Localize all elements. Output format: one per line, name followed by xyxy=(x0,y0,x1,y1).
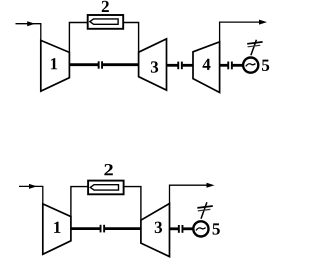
generator 5 circle (top diagram) xyxy=(243,58,258,73)
combustion chamber 2 inner flame tube (bottom diagram) xyxy=(90,185,118,190)
wire combustor to turbine (bottom diagram) xyxy=(124,187,141,221)
label 5 (top diagram) xyxy=(262,60,269,71)
coupling between 3 and 5 (bottom diagram) xyxy=(178,225,184,233)
turbine 3 (top diagram) xyxy=(139,39,167,90)
label 3 (bottom diagram) xyxy=(155,222,162,233)
compressor 1 (top diagram) xyxy=(41,40,70,91)
wire outlet arrow (top diagram) xyxy=(220,20,267,42)
label 2 (top diagram) xyxy=(102,1,109,12)
compressor 1 (bottom diagram) xyxy=(43,204,71,254)
coupling between 1 and 3 (top diagram) xyxy=(98,61,103,68)
generator 5 upper slash (bottom diagram) xyxy=(197,206,212,208)
turbine 3 (bottom diagram) xyxy=(141,204,170,257)
shaft turbine3-turbine4 (top diagram) xyxy=(167,64,194,67)
label 5 (bottom diagram) xyxy=(213,223,220,234)
shaft compressor-turbine (top diagram) xyxy=(69,63,138,66)
generator 5 upper slash (top diagram) xyxy=(247,42,262,44)
combustion chamber 2 outer (bottom diagram) xyxy=(88,181,124,195)
label 4 (top diagram) xyxy=(203,59,211,70)
coupling between 3 and 4 (top diagram) xyxy=(177,62,182,70)
label 1 (bottom diagram) xyxy=(54,222,60,233)
wire compressor to combustor (top diagram) xyxy=(69,23,87,53)
wire inlet arrow (top diagram) xyxy=(16,21,41,40)
coupling between 4 and 5 (top diagram) xyxy=(227,62,232,70)
wire outlet arrow (bottom diagram) xyxy=(170,183,215,204)
generator 5 circle (bottom diagram) xyxy=(193,221,208,236)
turbine 4 (top diagram) xyxy=(193,42,220,93)
generator 5 lower slash (bottom diagram) xyxy=(198,209,211,211)
shaft compressor-turbine (bottom diagram) xyxy=(71,227,141,230)
label 2 (bottom diagram) xyxy=(104,164,112,175)
wire combustor to turbine (top diagram) xyxy=(123,23,138,53)
wire inlet arrow (bottom diagram) xyxy=(19,184,43,204)
shaft turbine-generator (bottom diagram) xyxy=(170,227,194,230)
generator 5 lower slash (top diagram) xyxy=(248,45,261,47)
generator 5 terminal lead (top diagram) xyxy=(251,40,257,55)
coupling between 1 and 3 (bottom diagram) xyxy=(100,225,106,233)
label 3 (top diagram) xyxy=(151,61,158,72)
generator 5 sine squiggle (top diagram) xyxy=(246,64,256,67)
label 1 (top diagram) xyxy=(51,58,57,69)
combustion chamber 2 outer (top diagram) xyxy=(88,15,124,29)
generator 5 terminal lead (bottom diagram) xyxy=(201,202,207,219)
combustion chamber 2 inner flame tube (top diagram) xyxy=(90,19,118,24)
wire compressor to combustor (bottom diagram) xyxy=(71,187,88,217)
shaft turbine4-generator (top diagram) xyxy=(220,64,243,67)
generator 5 sine squiggle (bottom diagram) xyxy=(196,228,206,231)
